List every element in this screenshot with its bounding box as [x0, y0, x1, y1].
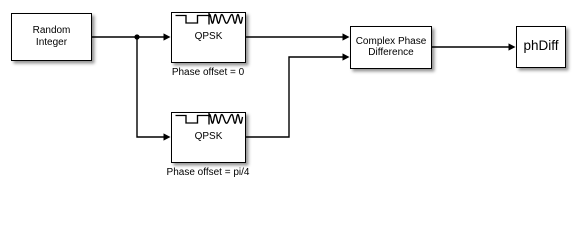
block: Random Integer source	[11, 13, 92, 61]
block: phDiff (To Workspace)	[516, 26, 566, 68]
wire: Random Integer -> QPSK1	[92, 36, 164, 38]
label: Phase offset = pi/4	[138, 167, 278, 178]
arrowhead into CPD in1	[343, 33, 350, 40]
arrowhead into QPSK2	[164, 133, 171, 140]
block: QPSK modulator 1 (phase offset 0)	[171, 12, 246, 63]
QPSK1 icon divider	[208, 13, 210, 25]
junction dot	[134, 34, 139, 39]
block: QPSK modulator 2 (phase offset pi/4)	[171, 112, 246, 163]
arrowhead into phDiff	[509, 43, 516, 50]
wire: QPSK2 -> Complex Phase Difference in2	[245, 57, 343, 137]
arrowhead into QPSK1	[164, 33, 171, 40]
wire: Complex Phase Difference -> phDiff	[431, 46, 509, 48]
wire: QPSK1 -> Complex Phase Difference in1	[245, 36, 343, 38]
QPSK2 icon sine wave	[209, 115, 243, 124]
block: Complex Phase Difference	[350, 26, 432, 69]
QPSK2 icon square wave	[176, 116, 209, 124]
QPSK1 icon sine wave	[209, 15, 243, 24]
arrowhead into CPD in2	[343, 53, 350, 60]
QPSK2 icon divider	[208, 113, 210, 125]
wire: branch down to QPSK2	[137, 37, 164, 137]
QPSK1 icon square wave	[176, 16, 209, 24]
label: Phase offset = 0	[138, 67, 278, 78]
